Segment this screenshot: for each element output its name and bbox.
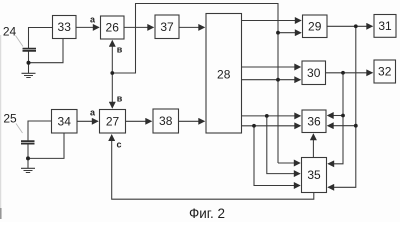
block 35: [302, 158, 327, 193]
block 28: [206, 14, 242, 134]
svg-text:27: 27: [106, 114, 120, 128]
block 26: [101, 16, 125, 39]
node: B-line junction: [110, 71, 114, 75]
svg-text:с: с: [116, 140, 121, 150]
wire: branch into 36 right upper: [328, 115, 343, 117]
ground: sensor 25: [21, 168, 35, 172]
wire: branch from 28-36 lower wire down to 35 left-bottom input: [254, 126, 300, 186]
block 31: [374, 15, 396, 38]
node: 29 output branch: [354, 24, 358, 28]
block 29: [303, 15, 328, 38]
node: 30 output branch: [341, 71, 345, 75]
svg-text:a: a: [90, 15, 96, 25]
node: x278 / 29 lower branch: [276, 31, 280, 35]
wire: 33 to 26: [76, 26, 99, 28]
wire: node x278 to 29 lower input: [278, 32, 301, 34]
svg-text:в: в: [117, 45, 123, 55]
wire: branch from 28-36 upper wire down to 35 left-middle input: [267, 116, 300, 174]
wire: 27 to 38: [126, 120, 152, 122]
wire: 35 bottom output down, left and up into 27 bottom (c input): [112, 135, 314, 199]
wire: vertical from 29 output down to 35 right-bottom: [328, 26, 356, 187]
wire: 38 to 28: [179, 120, 205, 122]
svg-text:35: 35: [307, 168, 321, 182]
wire: 28 to 30 upper input: [242, 66, 301, 68]
ground: sensor 24: [22, 73, 36, 77]
node: 36 lower wire branch: [252, 124, 256, 128]
svg-text:34: 34: [58, 114, 72, 128]
wire: sensor 24 bottom plate to block 33 bottom: [29, 39, 64, 63]
svg-text:26: 26: [106, 21, 120, 35]
block 30: [302, 61, 326, 85]
wire: ground stem 25: [27, 158, 29, 168]
wire: top feedback from node at x278 up, left along top, down and to B-line: [112, 4, 278, 164]
node: x278 / 30 lower wire: [276, 78, 280, 82]
capacitor: sensor 24 plates: [23, 49, 37, 51]
block 33: [53, 16, 77, 39]
block 37: [155, 15, 179, 39]
node: 36 upper wire branch: [265, 114, 269, 118]
wire: 37 to 28: [179, 26, 204, 28]
svg-text:31: 31: [378, 19, 392, 33]
leader line 25: [16, 124, 23, 134]
svg-text:24: 24: [3, 25, 17, 39]
wire: 26 to 37: [124, 26, 153, 28]
svg-text:36: 36: [307, 114, 321, 128]
leader line 24: [16, 36, 24, 47]
wire: sensor 24 top plate to block 33 input: [29, 28, 53, 49]
wire: 29 to 31: [327, 25, 372, 27]
svg-text:25: 25: [3, 112, 17, 126]
svg-text:38: 38: [159, 114, 173, 128]
svg-text:29: 29: [308, 19, 322, 33]
wire: branch into 36 right lower: [328, 125, 356, 127]
svg-text:33: 33: [58, 20, 72, 34]
svg-text:в: в: [117, 94, 123, 104]
block 34: [52, 110, 78, 134]
wire: sensor 25 top plate to block 34 input: [28, 121, 52, 141]
node: sensor 24 junction: [27, 61, 31, 65]
block 38: [153, 109, 179, 133]
block 36: [302, 110, 326, 133]
wire: 28 to 36 left lower input: [242, 125, 301, 127]
node: 36 right upper branch: [341, 114, 345, 118]
wire: node x278 down to 35 left-top input: [278, 162, 300, 164]
svg-text:28: 28: [217, 68, 231, 82]
scan artifact left edge: [0, 35, 2, 208]
wire: 30 to 32: [326, 72, 373, 74]
node: sensor 25 junction: [26, 156, 30, 160]
block 32: [374, 60, 396, 83]
wire: 34 to 27: [77, 120, 98, 122]
wire: 28 to 29 upper input: [242, 20, 301, 22]
wire: 35 top output up into 36 bottom: [312, 134, 314, 157]
wire: sensor 25 bottom plate to block 34 bottom: [28, 133, 64, 158]
svg-text:Фиг. 2: Фиг. 2: [189, 206, 225, 221]
wire: ground stem 24: [28, 63, 30, 73]
block 27: [100, 110, 126, 134]
wire: vertical from 30 output down to 35 right-top: [328, 73, 343, 164]
svg-text:37: 37: [160, 20, 174, 34]
capacitor: sensor 25 plates: [21, 141, 35, 143]
svg-text:a: a: [90, 108, 96, 118]
wire: B-line arrow up into 26 bottom: [111, 41, 113, 73]
svg-text:30: 30: [307, 66, 321, 80]
wire: B-line arrow down into 27 top: [111, 73, 113, 108]
node: 36 right lower branch: [354, 124, 358, 128]
wire: 28 to 30 lower input: [242, 79, 301, 81]
svg-text:32: 32: [378, 65, 392, 79]
wire: 28 to 36 left upper input: [242, 115, 301, 117]
